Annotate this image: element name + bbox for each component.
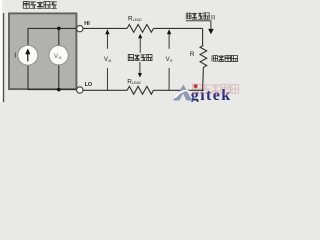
label: DMM title (digital multimeter) (23, 2, 57, 9)
svg-text:(I): (I) (211, 15, 216, 21)
voltmeter VM (circle) (49, 46, 68, 65)
svg-text:HI: HI (84, 21, 90, 27)
wire: VM lower reference line (106, 68, 108, 90)
svg-text:I: I (14, 53, 16, 60)
wire: LO lead right segment (154, 89, 203, 91)
DMM box (digital multimeter) (9, 13, 76, 89)
wire: riser from voltmeter to top rail (58, 28, 60, 45)
wire: riser from current source to top rail (27, 28, 29, 45)
terminal LO (77, 87, 83, 93)
leader line with arrow for test current (186, 21, 211, 30)
wire: HI lead left segment (83, 27, 127, 29)
svg-text:LEAD: LEAD (133, 18, 142, 22)
svg-text:LO: LO (85, 82, 93, 88)
arrow: lead resistance to bottom RLEAD (139, 62, 141, 74)
measurement arrow VM (node VM) (106, 34, 108, 49)
label: test current (I) (186, 13, 215, 21)
svg-text:V: V (166, 57, 170, 63)
wire: right branch top lead (202, 28, 204, 45)
wire: voltmeter to bottom rail (58, 65, 60, 90)
terminal HI (77, 25, 83, 31)
current source I (circle with up arrow) (18, 45, 38, 65)
node: bottom junction dot (57, 88, 61, 92)
wire: right branch bottom lead (202, 67, 205, 90)
measurement arrow VR (node VR) (168, 34, 170, 49)
wire: LO lead left segment (83, 89, 127, 91)
svg-text:M: M (108, 59, 111, 63)
svg-text:R: R (190, 51, 195, 58)
node: top junction dot (57, 27, 61, 31)
label: lead resistance (128, 54, 152, 60)
svg-text:V: V (104, 57, 108, 63)
svg-text:M: M (59, 56, 62, 60)
resistor RLEAD (bottom) (127, 86, 153, 94)
svg-text:LEAD: LEAD (132, 81, 141, 85)
watermark: overlay characters (193, 84, 239, 93)
arrow: lead resistance to top RLEAD (139, 38, 141, 53)
wire: HI lead right segment (154, 27, 203, 29)
wire: current source to bottom rail (27, 65, 29, 89)
resistor RLEAD (top) (127, 25, 153, 33)
wire: bottom interior rail (28, 89, 77, 91)
page edge line (3, 13, 4, 102)
resistor R (device under test) (200, 45, 207, 67)
watermark: Agitek logo A (173, 84, 198, 100)
label: resistance under test (212, 55, 238, 61)
wire: top interior rail (28, 27, 77, 29)
wire: VR lower reference line (168, 68, 170, 90)
